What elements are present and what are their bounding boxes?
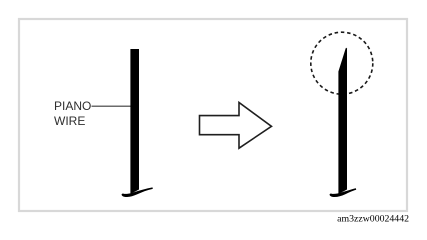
arrow (process direction)	[200, 103, 272, 149]
svg-text:PIANO: PIANO	[54, 99, 91, 113]
leader line from label to wire	[92, 105, 131, 107]
svg-text:am3zzw00024442: am3zzw00024442	[337, 214, 409, 225]
base swoosh under right wire	[330, 188, 357, 197]
dashed circle highlighting sharpened tip	[311, 32, 373, 94]
label PIANO WIRE	[54, 99, 91, 128]
piano wire W2 (right, sharpened tip)	[338, 48, 347, 194]
frame border	[19, 19, 407, 211]
piano wire W1 (left, blunt end)	[130, 49, 139, 194]
part number am3zzw00024442	[337, 214, 409, 225]
svg-text:WIRE: WIRE	[54, 114, 85, 128]
base swoosh under left wire	[122, 187, 153, 197]
